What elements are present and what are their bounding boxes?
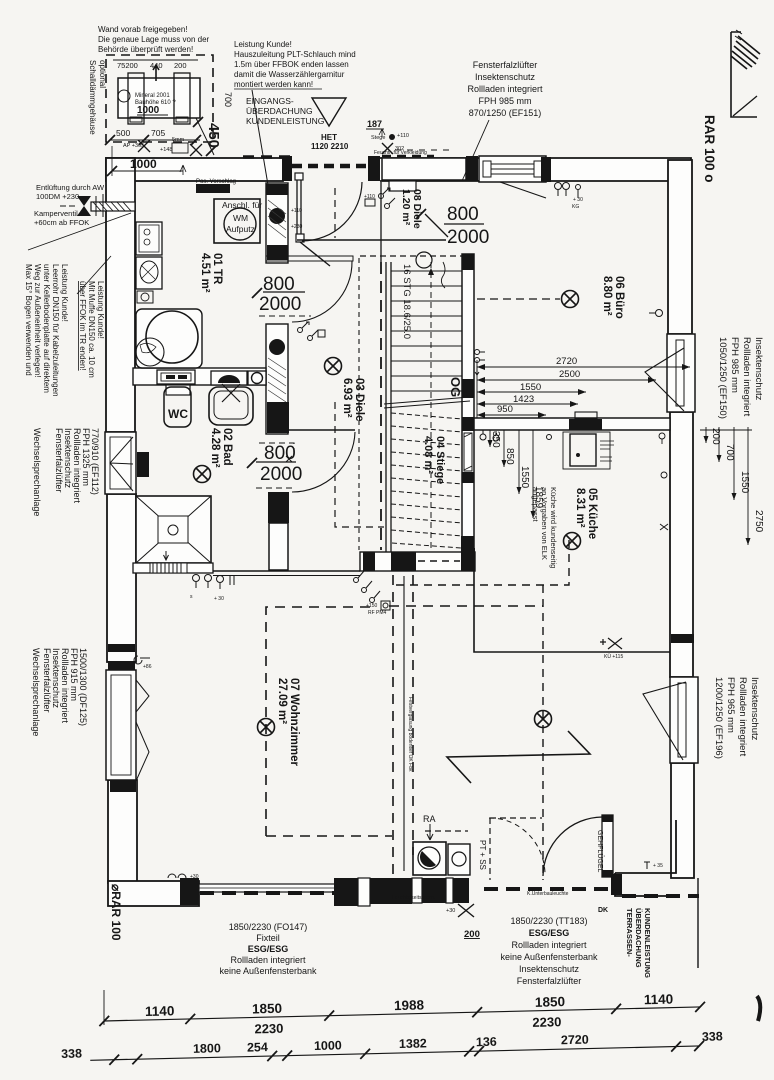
svg-text:200: 200	[464, 929, 480, 940]
svg-text:1382: 1382	[399, 1036, 427, 1051]
detail inner text	[135, 93, 176, 106]
WC	[164, 385, 191, 427]
svg-text:16 STG 18.6/25.0: 16 STG 18.6/25.0	[401, 264, 412, 339]
svg-text:+ 35: + 35	[653, 863, 663, 869]
top faint note	[98, 25, 210, 54]
stair cut line	[384, 397, 470, 408]
kitchen partition corner	[474, 571, 670, 652]
right artifact curve	[757, 996, 760, 1021]
shaft 1	[266, 183, 288, 263]
stair left stringer	[386, 262, 391, 553]
bottom wall left	[108, 881, 199, 906]
svg-text:Wechselsprechanlage: Wechselsprechanlage	[32, 428, 42, 516]
svg-text:Fensterfalzlüfter: Fensterfalzlüfter	[54, 428, 64, 493]
bottom text block TT183	[500, 916, 598, 986]
svg-text:1140: 1140	[644, 992, 674, 1008]
svg-text:Weg zur Außeneinheit verlegen!: Weg zur Außeneinheit verlegen!	[33, 264, 42, 378]
left window EF125	[106, 644, 149, 792]
stair treads solid	[391, 271, 462, 391]
left rotated text block B	[78, 281, 105, 378]
exterior top wall right segment	[380, 158, 691, 181]
kitchen note	[531, 487, 558, 568]
stair wall kitchen-side glyphs	[475, 350, 486, 376]
svg-text:damit die Wasserzählergarnitur: damit die Wasserzählergarnitur	[234, 70, 345, 79]
kitchen divider wall	[474, 418, 670, 430]
kitchen vertical dims	[490, 430, 533, 518]
dashed vertical luftraum lines	[335, 188, 462, 550]
svg-text:⌀RAR 100: ⌀RAR 100	[109, 884, 123, 941]
room label 03 Diele	[341, 378, 365, 421]
svg-text:05 Küche: 05 Küche	[586, 488, 598, 539]
svg-text:Fixteil: Fixteil	[256, 933, 280, 943]
svg-text:1140: 1140	[145, 1003, 175, 1019]
svg-text:RA: RA	[423, 814, 436, 824]
sockets below top wall büro	[555, 183, 581, 199]
washbasin	[209, 384, 253, 425]
switches near shaft2	[298, 322, 326, 341]
svg-text:2750: 2750	[753, 510, 764, 533]
eingangs text	[246, 96, 324, 126]
svg-text:+110: +110	[291, 208, 302, 214]
bad label dashes	[256, 443, 294, 488]
svg-text:Rollladen integriert: Rollladen integriert	[467, 84, 543, 94]
svg-text:2230: 2230	[254, 1021, 283, 1037]
svg-text:HET: HET	[321, 133, 337, 142]
svg-text:1850: 1850	[535, 994, 565, 1010]
svg-text:1120 2210: 1120 2210	[311, 142, 349, 151]
right rotated text terrassen	[625, 908, 652, 978]
bad door pier	[267, 402, 289, 433]
RAR 100 right	[702, 115, 717, 183]
svg-text:Mit Muffe DN150 ca. 10 cm: Mit Muffe DN150 ca. 10 cm	[87, 281, 96, 378]
svg-text:Feuchtigkeitssperre: Feuchtigkeitssperre	[392, 895, 436, 901]
left rotated text block A	[24, 264, 69, 397]
lamp living 1	[258, 719, 275, 736]
room label 02 Bad	[209, 428, 233, 468]
svg-text:OG: OG	[448, 377, 463, 397]
svg-text:+110: +110	[397, 133, 409, 139]
bottom wall vent marks	[168, 874, 186, 878]
svg-text:Insektenschutz: Insektenschutz	[753, 337, 764, 401]
exterior right wall upper	[668, 160, 692, 334]
svg-text:27.09 m²: 27.09 m²	[276, 678, 288, 724]
door label 800/2000 diele	[252, 274, 305, 315]
exterior left wall lower	[108, 780, 137, 883]
svg-text:Leistung Kunde!: Leistung Kunde!	[96, 281, 105, 339]
dim 187	[366, 119, 385, 137]
svg-text:07 Wohnzimmer: 07 Wohnzimmer	[288, 678, 300, 766]
lamp bad	[194, 466, 211, 483]
room label 01 TR	[199, 253, 223, 293]
hall partition	[380, 182, 382, 262]
svg-text:2000: 2000	[447, 227, 489, 248]
svg-text:1000: 1000	[130, 157, 157, 171]
svg-text:+30: +30	[190, 874, 199, 880]
leader lines left	[28, 213, 131, 294]
svg-text:03 Diele: 03 Diele	[353, 378, 365, 421]
svg-text:FPH 985 mm: FPH 985 mm	[729, 337, 740, 393]
svg-text:1423: 1423	[513, 394, 534, 405]
svg-text:K.Unterbauleuchte: K.Unterbauleuchte	[527, 891, 569, 897]
stair top circle detail	[441, 262, 445, 288]
room label 05 Küche	[574, 488, 598, 539]
svg-text:700: 700	[223, 92, 233, 107]
kitchen divider faucet glyphs	[480, 430, 552, 441]
svg-text:Wand vorab freigegeben!: Wand vorab freigegeben!	[98, 25, 188, 34]
svg-text:338: 338	[702, 1029, 723, 1043]
upper interior door arc	[292, 261, 352, 322]
svg-text:187: 187	[367, 119, 382, 129]
room label 08 Diele	[400, 189, 423, 229]
center partition line	[403, 576, 405, 871]
room label 06 Büro	[601, 276, 625, 319]
svg-text:Leerrohr DN150 für Kabelzuleit: Leerrohr DN150 für Kabelzuleitungen	[51, 264, 60, 397]
PT SS label	[478, 840, 487, 870]
bottom wall right	[615, 820, 676, 896]
svg-text:montiert werden kann!: montiert werden kann!	[234, 80, 313, 89]
kitchen counter	[563, 412, 614, 469]
svg-text:Kamperventil: Kamperventil	[34, 209, 78, 218]
svg-text:Insektenschutz: Insektenschutz	[519, 964, 580, 974]
svg-text:Max 15° Bogen verwenden und: Max 15° Bogen verwenden und	[24, 264, 33, 376]
stair treads dashed lower flight	[391, 413, 462, 548]
bottom right pier	[611, 874, 622, 895]
stair right wall	[462, 254, 474, 552]
svg-text:4.51 m²: 4.51 m²	[199, 253, 211, 293]
stair bottom wall	[360, 552, 475, 571]
svg-text:8.31 m²: 8.31 m²	[574, 488, 586, 528]
svg-text:1200/1250 (EF196): 1200/1250 (EF196)	[713, 677, 724, 759]
svg-text:GEHFLÜGEL: GEHFLÜGEL	[596, 830, 604, 873]
svg-text:200: 200	[174, 61, 187, 70]
svg-text:338: 338	[61, 1046, 82, 1060]
switch cluster living	[354, 571, 391, 610]
room label 07 Wohnzimmer	[276, 678, 300, 766]
svg-text:FPH 965 mm: FPH 965 mm	[725, 677, 736, 733]
svg-text:1800: 1800	[193, 1041, 221, 1056]
lamp living 2	[535, 711, 552, 728]
bottom dashed band	[200, 889, 699, 896]
svg-text:1.5m über FFBOK enden lassen: 1.5m über FFBOK enden lassen	[234, 60, 349, 69]
svg-text:06 Büro: 06 Büro	[613, 276, 625, 319]
svg-text:Insektenschutz: Insektenschutz	[749, 677, 760, 741]
svg-text:1550: 1550	[739, 471, 750, 494]
svg-text:2000: 2000	[259, 294, 301, 315]
svg-text:Fensterfalzlüfter: Fensterfalzlüfter	[42, 648, 52, 713]
svg-text:EINGANGS-: EINGANGS-	[246, 96, 294, 106]
svg-text:FPH 985 mm: FPH 985 mm	[478, 96, 531, 106]
small box below	[137, 291, 153, 303]
svg-text:02 Bad: 02 Bad	[221, 428, 233, 466]
exterior left wall upper	[106, 158, 135, 432]
svg-text:04 Stiege: 04 Stiege	[434, 436, 446, 484]
svg-text:KUNDENLEISTUNG: KUNDENLEISTUNG	[643, 908, 652, 978]
shower drain arrow	[164, 551, 169, 560]
08 diele switches	[365, 188, 395, 209]
svg-text:800: 800	[447, 204, 479, 225]
bath heater	[137, 452, 149, 477]
heater under shower	[150, 563, 187, 573]
svg-text:ESG/ESG: ESG/ESG	[529, 928, 570, 938]
dim 700 vertical	[219, 88, 233, 151]
bottom dim row 2	[61, 1029, 723, 1066]
svg-text:unter Kellerbodenplatte auf di: unter Kellerbodenplatte auf direktem	[42, 264, 51, 393]
svg-text:4.08 m²: 4.08 m²	[422, 436, 434, 474]
kitchen X mark right	[600, 638, 622, 649]
top window EF151	[382, 156, 551, 198]
svg-text:Rollladen integriert: Rollladen integriert	[511, 940, 587, 950]
svg-text:Anschl. für: Anschl. für	[222, 200, 262, 210]
svg-text:Mineral 2001: Mineral 2001	[135, 93, 170, 99]
svg-text:8.80 m²: 8.80 m²	[601, 276, 613, 316]
door label 800/2000 bad	[247, 443, 302, 485]
svg-text:1550: 1550	[520, 382, 541, 393]
büro lamp dashed line	[477, 298, 560, 300]
detail dims top	[113, 60, 198, 70]
svg-text:Rollladen integriert: Rollladen integriert	[737, 677, 748, 757]
right window EF150	[645, 334, 695, 412]
GEHFLÜGEL label	[596, 830, 604, 873]
shaft2 hatch	[268, 358, 286, 402]
svg-text:Fensterfalzlüfter: Fensterfalzlüfter	[473, 60, 538, 70]
Pos Vorschlag label	[196, 184, 230, 193]
svg-text:Leistung Kunde!: Leistung Kunde!	[234, 40, 292, 49]
shaft side marks	[291, 208, 302, 230]
TR bottom appliances	[157, 370, 266, 385]
svg-text:Die genaue Lage muss von der: Die genaue Lage muss von der	[98, 35, 210, 44]
diele door dashes	[259, 315, 311, 317]
svg-text:+86: +86	[143, 664, 152, 670]
wall gap hook mark	[134, 656, 150, 664]
svg-text:PT + SS: PT + SS	[478, 840, 487, 870]
entrance door jamb left	[282, 156, 292, 181]
svg-text:Küche wird kundenseitig: Küche wird kundenseitig	[549, 487, 558, 568]
left pipe valve	[60, 194, 135, 217]
heat pump unit	[118, 65, 200, 124]
svg-text:+230: +230	[291, 224, 302, 230]
svg-text:ÜBERDACHUNG: ÜBERDACHUNG	[634, 908, 643, 968]
lamp büro	[562, 291, 579, 308]
svg-text:1859: 1859	[533, 486, 544, 509]
dim 450 vertical	[193, 117, 222, 156]
hot water tank	[136, 309, 202, 368]
shower	[136, 496, 211, 563]
detail dashed box	[106, 55, 213, 142]
lamp küche	[564, 533, 581, 550]
svg-text:keine Außenfensterbank: keine Außenfensterbank	[219, 966, 317, 976]
stair label 16 STG	[401, 264, 412, 339]
left pipe texts	[34, 183, 105, 227]
svg-text:KG: KG	[572, 204, 579, 210]
svg-text:1850/2230 (TT183): 1850/2230 (TT183)	[510, 916, 587, 926]
svg-text:1988: 1988	[394, 997, 425, 1013]
svg-text:TERRASSEN-: TERRASSEN-	[625, 908, 634, 957]
svg-text:2720: 2720	[561, 1033, 589, 1048]
leader line	[252, 90, 268, 185]
svg-text:Insektenschutz: Insektenschutz	[475, 72, 536, 82]
svg-text:1000: 1000	[314, 1038, 342, 1053]
shaft 2	[266, 324, 288, 434]
svg-text:+ 30: + 30	[214, 596, 224, 602]
landing shelf line	[266, 256, 353, 261]
svg-text:2230: 2230	[532, 1014, 561, 1030]
stair walking line	[430, 262, 432, 548]
RAR 100 left	[109, 884, 123, 941]
terrace door leaf	[489, 815, 613, 877]
svg-text:6.93 m²: 6.93 m²	[341, 378, 353, 418]
bottom mullion blocks	[180, 878, 199, 905]
+35 tick bottom right	[644, 862, 650, 869]
shaft1 hatch	[268, 200, 286, 238]
svg-text:Entlüftung durch AW: Entlüftung durch AW	[36, 183, 105, 192]
left rotated text block EF125	[31, 648, 88, 736]
svg-text:Leistung Kunde!: Leistung Kunde!	[60, 264, 69, 322]
living top wall line	[133, 570, 360, 572]
right extension line	[697, 878, 699, 968]
svg-text:950: 950	[497, 404, 513, 415]
left window EF112	[105, 432, 136, 494]
HET label	[311, 133, 349, 151]
svg-text:100DM +230: 100DM +230	[36, 192, 79, 201]
svg-text:ÜBERDACHUNG: ÜBERDACHUNG	[246, 106, 313, 116]
exterior left wall mid	[107, 494, 136, 662]
svg-text:254: 254	[247, 1040, 268, 1054]
dim 1000 top wall	[107, 146, 186, 176]
svg-text:01 TR: 01 TR	[211, 253, 223, 285]
TR cabinet 1	[136, 222, 162, 255]
kitchen wall fixtures	[659, 433, 668, 530]
entrance door jamb right	[368, 156, 380, 181]
pellet stove	[413, 842, 470, 875]
right rotated text EF150	[717, 337, 764, 419]
svg-text:1000: 1000	[137, 105, 160, 116]
svg-text:+30: +30	[446, 908, 455, 914]
svg-text:WM: WM	[233, 213, 248, 223]
detail dims bottom	[105, 128, 201, 145]
svg-text:Rollladen integriert: Rollladen integriert	[741, 337, 752, 417]
svg-text:4.28 m²: 4.28 m²	[209, 428, 221, 468]
EF151 text block	[467, 60, 543, 118]
bad door leaf+arc	[289, 430, 355, 492]
stove niche dashes	[425, 818, 542, 880]
entrance 2000 line	[297, 239, 446, 241]
right window EF196	[643, 677, 698, 763]
Leistung Kunde top text	[234, 40, 356, 89]
small marks above wall	[123, 137, 202, 156]
svg-text:1550: 1550	[519, 466, 530, 489]
small marks near entrance	[371, 133, 409, 154]
right rotated text EF196	[713, 677, 760, 759]
svg-text:Aufputz: Aufputz	[226, 224, 255, 234]
bottom window FO147 glazing	[199, 884, 335, 892]
svg-text:1.20 m²: 1.20 m²	[400, 189, 412, 226]
svg-text:850: 850	[504, 448, 515, 465]
OG label	[448, 377, 463, 397]
bad-diele wall lower	[268, 492, 289, 523]
svg-text:Feuchtr. für Verkleidung: Feuchtr. für Verkleidung	[374, 150, 427, 156]
svg-text:1850: 1850	[252, 1001, 282, 1017]
living arrow polyline	[447, 731, 590, 783]
svg-text:2500: 2500	[559, 369, 580, 380]
svg-text:500: 500	[116, 128, 130, 138]
svg-text:700: 700	[724, 444, 735, 461]
bottom text block FO147	[219, 922, 317, 976]
svg-text:870/1250 (EF151): 870/1250 (EF151)	[469, 108, 542, 118]
door label 800/2000 entrance	[416, 204, 489, 248]
living dashed rectangle	[266, 575, 543, 878]
svg-text:2720: 2720	[556, 356, 577, 367]
TR sink cabinet	[136, 257, 162, 289]
svg-text:Wechselsprechanlage: Wechselsprechanlage	[31, 648, 41, 736]
right side dim chain	[700, 427, 752, 545]
svg-text:Stege: Stege	[371, 135, 385, 141]
exterior right wall lower	[671, 763, 694, 878]
svg-text:5mm: 5mm	[172, 137, 185, 143]
svg-text:Pos. Vorschlag: Pos. Vorschlag	[196, 179, 236, 185]
svg-text:+ 30: + 30	[573, 197, 583, 203]
TR bottom wall	[133, 368, 266, 385]
svg-text:Fensterfalzlüfter: Fensterfalzlüfter	[517, 976, 582, 986]
bottom dim row 1	[99, 991, 706, 1040]
X mark bottom	[458, 904, 474, 917]
svg-text:Behörde überprüft werden!: Behörde überprüft werden!	[98, 45, 193, 54]
lamp diele	[325, 358, 342, 375]
svg-text:Festverglasung bodentief OK Fb: Festverglasung bodentief OK Fbk	[407, 697, 413, 772]
WM connection box	[214, 199, 260, 243]
svg-text:ESG/ESG: ESG/ESG	[248, 944, 289, 954]
svg-text:KUNDENLEISTUNG: KUNDENLEISTUNG	[246, 116, 324, 126]
sockets below shower wall	[193, 575, 235, 590]
svg-text:RAR 100 o: RAR 100 o	[702, 115, 717, 183]
exterior right wall mid	[670, 412, 693, 677]
right wall black band	[671, 634, 694, 643]
canopy triangle	[312, 98, 346, 126]
EF151 leader	[462, 120, 489, 181]
svg-text:+148: +148	[160, 147, 172, 153]
left rotated text block EF112	[32, 428, 100, 516]
entrance door dashes	[243, 155, 290, 159]
svg-text:200: 200	[710, 428, 721, 445]
svg-text:KÜ +115: KÜ +115	[604, 653, 623, 660]
svg-text:705: 705	[151, 128, 165, 138]
büro window fixtures	[649, 310, 663, 317]
corner symbol top right	[731, 30, 760, 117]
svg-text:2000: 2000	[260, 464, 302, 485]
svg-text:Rollladen integriert: Rollladen integriert	[230, 955, 306, 965]
kitchen dashed boundary	[394, 540, 569, 880]
svg-text:WC: WC	[168, 407, 188, 421]
svg-text:Schalldämmgehäuse: Schalldämmgehäuse	[88, 60, 97, 135]
svg-text:440: 440	[150, 61, 163, 70]
svg-text:75200: 75200	[117, 61, 138, 70]
svg-text:keine Außenfensterbank: keine Außenfensterbank	[500, 952, 598, 962]
shower bottom wall	[133, 563, 213, 573]
svg-text:+60cm ab FFOK: +60cm ab FFOK	[34, 218, 89, 227]
room label 04 Stiege	[422, 436, 446, 484]
optional Schalldämmgehäuse label	[88, 60, 107, 135]
svg-text:+110: +110	[364, 194, 375, 200]
büro dim chain	[477, 356, 690, 418]
svg-text:1050/1250 (EF150): 1050/1250 (EF150)	[717, 337, 728, 419]
svg-text:Hauszuleitung PLT-Schlauch min: Hauszuleitung PLT-Schlauch mind	[234, 50, 356, 59]
entrance door leaf	[295, 173, 362, 242]
svg-text:über FFOK im TR enden!: über FFOK im TR enden!	[78, 281, 87, 371]
svg-text:DK: DK	[598, 907, 608, 914]
exterior top wall left segment	[106, 158, 283, 181]
svg-text:RF PM4: RF PM4	[368, 610, 387, 616]
svg-text:450: 450	[205, 123, 222, 148]
svg-text:1850/2230 (FO147): 1850/2230 (FO147)	[229, 922, 308, 932]
